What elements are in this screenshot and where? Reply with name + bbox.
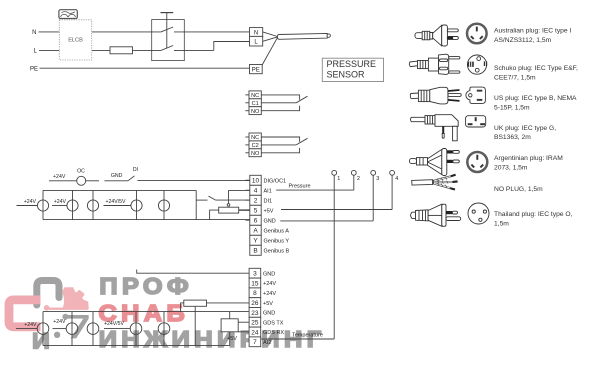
svg-text:PRESSURE: PRESSURE	[327, 59, 377, 69]
svg-text:15: 15	[251, 280, 259, 287]
svg-text:+24V/5V: +24V/5V	[104, 321, 125, 327]
svg-text:10: 10	[252, 178, 260, 185]
svg-text:3: 3	[253, 271, 257, 278]
svg-text:GDS TX: GDS TX	[263, 320, 284, 326]
svg-text:Temperature: Temperature	[292, 332, 323, 338]
svg-text:GDS RX: GDS RX	[263, 330, 284, 336]
svg-text:Schuko plug: IEC Type E&F,: Schuko plug: IEC Type E&F,	[494, 65, 578, 72]
svg-text:C1: C1	[252, 101, 259, 107]
svg-text:25: 25	[251, 320, 259, 327]
svg-text:7: 7	[253, 339, 257, 346]
svg-text:23: 23	[251, 310, 259, 317]
svg-text:SENSOR: SENSOR	[327, 69, 366, 79]
svg-text:NC: NC	[251, 93, 259, 99]
svg-text:+24V: +24V	[54, 199, 67, 205]
svg-text:DIG/OC1: DIG/OC1	[264, 178, 287, 184]
svg-text:1: 1	[337, 176, 340, 182]
svg-text:+24V/5V: +24V/5V	[105, 199, 126, 205]
svg-text:4: 4	[395, 176, 398, 182]
svg-text:3: 3	[376, 176, 379, 182]
svg-text:Genibus A: Genibus A	[264, 228, 290, 234]
svg-text:8: 8	[253, 290, 257, 297]
svg-text:A: A	[253, 228, 258, 235]
svg-text:+24V: +24V	[24, 322, 37, 328]
svg-text:AI1: AI1	[264, 188, 272, 194]
svg-text:2: 2	[357, 176, 360, 182]
svg-text:Pressure: Pressure	[289, 184, 311, 190]
svg-text:NO PLUG, 1,5m: NO PLUG, 1,5m	[494, 186, 543, 193]
svg-text:+24V: +24V	[53, 319, 66, 325]
svg-text:+5V: +5V	[264, 208, 274, 214]
svg-text:AI2: AI2	[263, 340, 271, 346]
svg-text:2: 2	[254, 198, 258, 205]
svg-text:1,5m: 1,5m	[494, 221, 509, 228]
svg-text:Genibus B: Genibus B	[264, 248, 290, 254]
svg-text:+24V: +24V	[24, 199, 37, 205]
svg-text:+24V: +24V	[263, 281, 276, 287]
svg-text:B: B	[253, 248, 257, 255]
svg-text:GND: GND	[264, 218, 276, 224]
svg-text:Genibus Y: Genibus Y	[264, 238, 290, 244]
svg-text:NO: NO	[251, 109, 260, 115]
svg-text:GND: GND	[263, 311, 275, 317]
svg-text:Thailand plug: IEC type O,: Thailand plug: IEC type O,	[494, 211, 573, 218]
svg-text:C2: C2	[252, 143, 259, 149]
svg-text:5: 5	[254, 208, 258, 215]
svg-text:DI1: DI1	[264, 198, 273, 204]
svg-text:6: 6	[254, 218, 258, 225]
svg-text:AS/NZS3112, 1,5m: AS/NZS3112, 1,5m	[494, 37, 552, 44]
svg-text:+5V: +5V	[227, 336, 237, 342]
svg-text:NO: NO	[251, 151, 260, 157]
svg-text:UK plug: IEC type G,: UK plug: IEC type G,	[494, 125, 556, 132]
svg-text:L: L	[34, 49, 38, 55]
svg-text:+5V: +5V	[263, 301, 273, 307]
svg-text:US plug: IEC type B, NEMA: US plug: IEC type B, NEMA	[494, 95, 577, 102]
svg-text:PE: PE	[30, 67, 38, 73]
svg-text:N: N	[32, 30, 36, 36]
svg-text:+24V: +24V	[53, 174, 66, 180]
svg-text:ИНЖИНИРИНГ: ИНЖИНИРИНГ	[99, 327, 326, 353]
svg-text:GND: GND	[263, 271, 275, 277]
svg-text:26: 26	[251, 300, 259, 307]
svg-text:BS1363, 2m: BS1363, 2m	[494, 134, 531, 141]
svg-text:4: 4	[254, 188, 258, 195]
svg-text:ELCB: ELCB	[68, 38, 83, 44]
svg-text:N: N	[254, 30, 258, 36]
svg-text:Argentinian plug: IRAM: Argentinian plug: IRAM	[494, 155, 563, 162]
svg-text:Y: Y	[253, 238, 258, 245]
svg-text:PE: PE	[252, 67, 260, 73]
svg-text:5-15P, 1,5m: 5-15P, 1,5m	[494, 105, 530, 112]
svg-text:Australian plug: IEC type I: Australian plug: IEC type I	[494, 28, 571, 35]
svg-text:2073, 1,5m: 2073, 1,5m	[494, 165, 528, 172]
svg-text:24: 24	[251, 329, 259, 336]
svg-text:CEE7/7, 1,5m: CEE7/7, 1,5m	[494, 75, 536, 82]
svg-text:+24V: +24V	[263, 291, 276, 297]
svg-text:DI: DI	[133, 167, 138, 173]
svg-text:NC: NC	[251, 135, 259, 141]
svg-text:GND: GND	[111, 173, 123, 179]
svg-text:ПРОФ: ПРОФ	[99, 274, 193, 300]
svg-text:OC: OC	[77, 169, 85, 175]
